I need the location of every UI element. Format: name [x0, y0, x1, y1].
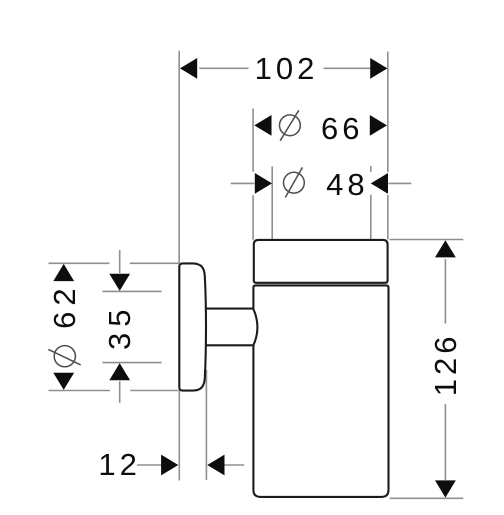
- arrowhead 12 pointing left: [207, 455, 224, 476]
- dimension line phi48 outside leaders: [231, 182, 412, 184]
- extension line 62 top (y=263.3): [49, 262, 180, 264]
- arrowhead phi48 left: [255, 173, 272, 194]
- boundary line 35 top (y=291.4): [103, 290, 162, 292]
- dimension line 126: [444, 259, 446, 480]
- extension line phi66 left (x=252.8): [252, 109, 254, 240]
- extension line 126 top (y=239.5): [390, 239, 464, 241]
- svg-text:12: 12: [98, 447, 140, 482]
- svg-text:126: 126: [428, 333, 463, 397]
- arrowhead phi66 right: [370, 115, 387, 136]
- svg-text:62: 62: [47, 282, 82, 328]
- extension line 126 bottom (y=498.3): [390, 497, 464, 499]
- dimension line 35 leaders: [119, 250, 121, 403]
- tumbler body: [253, 285, 388, 497]
- dimension line 12 leaders: [137, 464, 244, 466]
- arrowhead 35 top: [109, 274, 130, 291]
- svg-text:102: 102: [255, 51, 319, 86]
- wall plate (escutcheon, side view): [179, 263, 206, 390]
- holder ring (top band): [254, 240, 388, 283]
- arrowhead 126 top: [435, 240, 456, 257]
- arrowhead 102 left: [180, 58, 197, 79]
- arrowhead 62 bottom: [53, 373, 74, 390]
- arrowhead 12 pointing right: [161, 455, 178, 476]
- dimension line 102: [199, 67, 371, 69]
- extension line 12 right (x=206.4): [205, 370, 207, 480]
- diameter symbol for 62 (rotated): [54, 346, 75, 367]
- extension line right of 102 / phi66 (x=388): [387, 52, 389, 240]
- extension line 62 bottom (y=390.5): [49, 390, 179, 392]
- svg-text:66: 66: [321, 111, 363, 146]
- arrowhead 62 top: [53, 264, 74, 281]
- extension line phi48 right (x=372.6): [370, 166, 372, 240]
- diameter symbol for 48: [284, 172, 305, 193]
- mounting arm: [206, 309, 258, 346]
- arrowhead phi48 right: [371, 173, 388, 194]
- arrowhead 102 right: [370, 58, 387, 79]
- arrowhead 126 bottom: [435, 480, 456, 497]
- diameter symbol for 66: [280, 115, 301, 136]
- extension line left of 102 (wall line, x=179): [178, 51, 180, 264]
- extension line phi48 left (x=271.5): [271, 167, 273, 240]
- extension line 12 left (x=179.3 below plate): [178, 391, 180, 481]
- svg-text:48: 48: [326, 167, 368, 202]
- arrowhead 35 bottom: [109, 363, 130, 380]
- boundary line 35 bottom (y=362.6): [103, 362, 162, 364]
- arrowhead phi66 left: [254, 115, 271, 136]
- svg-text:35: 35: [102, 304, 137, 350]
